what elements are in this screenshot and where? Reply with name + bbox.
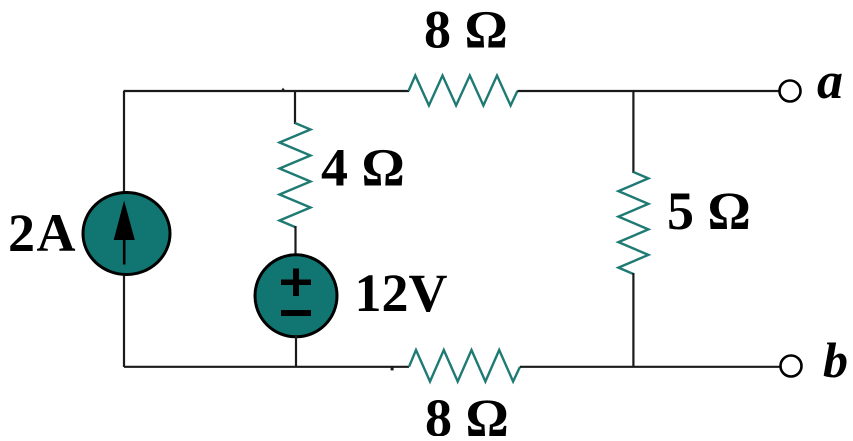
resistor 5 ohm: [618, 172, 648, 274]
wire: bottom-left horizontal segment: [124, 366, 409, 368]
terminal b: [781, 356, 802, 377]
svg-text:a: a: [817, 53, 843, 110]
svg-text:2A: 2A: [8, 203, 77, 263]
svg-text:8 Ω: 8 Ω: [424, 0, 508, 60]
resistor 4 ohm: [280, 123, 311, 227]
resistor 8 ohm (top): [409, 76, 518, 106]
svg-text:12V: 12V: [355, 263, 448, 323]
junction tick on bottom wire: [391, 367, 394, 371]
terminal a: [780, 81, 801, 102]
wire: top-right horizontal segment: [517, 90, 779, 92]
wire: right vertical top stub: [632, 91, 634, 173]
resistor 8 ohm (bottom): [409, 350, 520, 382]
voltage source V1 12V: [255, 255, 337, 337]
wire: middle vertical bottom stub: [295, 335, 297, 367]
wire: right vertical bottom stub: [632, 273, 634, 367]
svg-text:8 Ω: 8 Ω: [425, 388, 509, 436]
svg-text:4 Ω: 4 Ω: [321, 138, 405, 198]
current source I1 2A: [83, 193, 170, 275]
wire: middle vertical between resistor and source: [294, 226, 296, 256]
svg-text:5 Ω: 5 Ω: [667, 181, 751, 241]
wire: top-left horizontal segment: [124, 90, 410, 92]
wire: middle vertical top stub: [294, 91, 296, 124]
svg-text:b: b: [823, 332, 848, 388]
wire: bottom-right horizontal segment: [520, 366, 780, 368]
wire: left vertical: [123, 91, 125, 367]
junction tick on top wire: [282, 88, 285, 90]
